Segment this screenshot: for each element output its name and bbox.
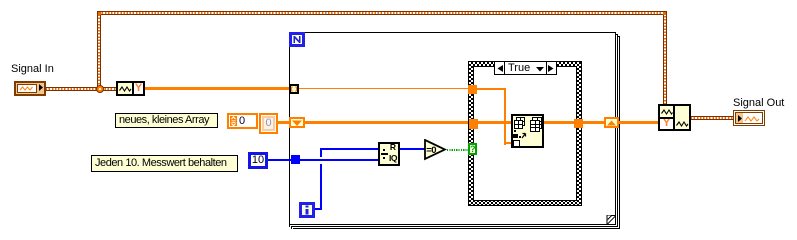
node: Equal To 0? — [424, 139, 447, 161]
node: Quotient & Remainder — [378, 142, 400, 166]
wire: orange array thick from converter to loop — [145, 87, 290, 90]
wire: element into insert node — [504, 142, 512, 144]
tunnel: case left top (element) — [468, 85, 477, 94]
constant: numeric 0 (shift register init) — [259, 113, 278, 134]
terminal: loop count N — [289, 32, 305, 47]
wire: dynamic data out to Signal Out — [689, 116, 735, 120]
wire: blue to QR x input — [322, 148, 378, 150]
wire: green boolean dotted — [447, 149, 468, 151]
wire: blue 10 to tunnel — [268, 159, 291, 161]
wire: insert node output — [544, 121, 575, 124]
constant: numeric 10 — [248, 152, 268, 169]
wire: constant to left shift register — [277, 121, 289, 124]
wire: blue from i terminal — [315, 208, 322, 210]
wire: dynamic corner top-right — [663, 11, 667, 15]
tunnel: case right output — [574, 119, 583, 128]
terminal: Signal Out indicator — [733, 110, 765, 126]
for-loop page curl — [604, 212, 618, 226]
tunnel: blue solid on loop border — [291, 155, 300, 164]
label: Jeden 10. Messwert behalten — [91, 155, 238, 172]
wire: case to right shift register — [583, 121, 604, 124]
label Signal Out — [733, 97, 784, 109]
shift register right (up arrow) — [604, 117, 619, 128]
wire: blue tunnel to QR y input — [300, 159, 378, 161]
wire: array into insert node — [478, 121, 512, 124]
control terminal: numeric 0 with spinner — [227, 113, 258, 129]
for-loop stacked border line 2 — [615, 34, 618, 35]
shift register left (down arrow) — [289, 117, 305, 128]
tunnel: case left middle (array) — [469, 119, 478, 129]
label: neues kleines Array — [115, 113, 218, 128]
label Signal In — [11, 63, 54, 75]
wire: blue i vertical upper — [320, 148, 322, 157]
case selector label True — [494, 61, 557, 75]
wire: dynamic data right vertical — [663, 13, 667, 106]
junction: dynamic wire tee — [96, 85, 104, 93]
node: Insert Into Array — [511, 114, 544, 148]
wire: dynamic data left vertical — [97, 13, 101, 89]
terminal: iteration i — [299, 202, 315, 218]
terminal: Signal In control — [14, 81, 46, 96]
node: Convert from Dynamic Data U1 — [116, 81, 145, 96]
wire: dynamic data Signal In horizontal — [44, 87, 118, 91]
for-loop border — [289, 32, 616, 225]
wire: blue i vertical lower — [320, 164, 322, 210]
case structure border — [468, 61, 582, 206]
wire: element vertical drop — [504, 88, 506, 145]
node: Convert to Dynamic Data U2 — [658, 104, 691, 131]
wire: loop output to converter — [619, 121, 658, 124]
tunnel: auto-indexing input (left border) — [289, 84, 299, 94]
wire: dynamic corner top-left — [97, 11, 101, 15]
wire: element into case — [477, 88, 506, 90]
wire: orange thin scalar inside loop — [299, 88, 468, 89]
for-loop stacked border line 3 — [617, 36, 620, 37]
wire: orange array thick, shift reg to case — [305, 121, 469, 124]
svg-text:=0: =0 — [426, 145, 436, 156]
wire: blue R output — [400, 148, 425, 150]
terminal: case selector ? — [468, 143, 477, 155]
wire: dynamic data top horizontal — [97, 11, 667, 15]
